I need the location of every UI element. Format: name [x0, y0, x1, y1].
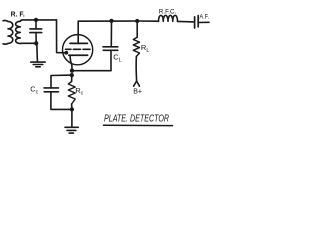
svg-text:A.F.: A.F. — [200, 13, 210, 20]
svg-text:R.F.C.: R.F.C. — [159, 9, 177, 15]
svg-text:PLATE. DETECTOR: PLATE. DETECTOR — [104, 114, 169, 125]
svg-text:B+: B+ — [133, 88, 142, 95]
svg-text:R. F.: R. F. — [11, 11, 25, 18]
